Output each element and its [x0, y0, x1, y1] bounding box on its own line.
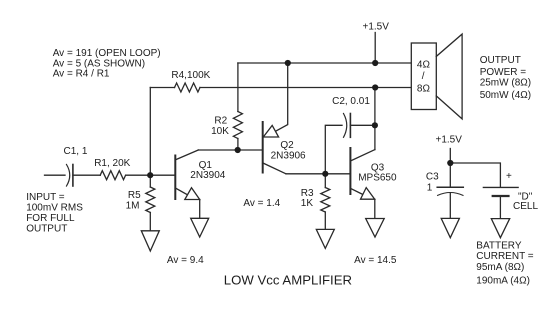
svg-text:MPS650: MPS650: [358, 173, 397, 184]
wire R1 to Q1 base: [126, 174, 176, 176]
wire output net y=87.5 from R4 to speaker: [150, 87, 174, 89]
note input level: [26, 192, 83, 234]
note output power: [480, 55, 531, 101]
svg-text:190mA (4Ω): 190mA (4Ω): [476, 275, 530, 286]
svg-text:CELL: CELL: [513, 201, 538, 212]
svg-text:+: +: [506, 171, 512, 182]
node input junction dot: [147, 172, 153, 178]
svg-text:OUTPUT: OUTPUT: [26, 224, 67, 235]
svg-text:Av = 1.4: Av = 1.4: [243, 198, 280, 209]
wire R2 bottom leg: [237, 139, 239, 151]
svg-text:R2: R2: [214, 115, 227, 126]
svg-text:2N3904: 2N3904: [190, 170, 225, 181]
svg-text:LOW Vcc AMPLIFIER: LOW Vcc AMPLIFIER: [224, 273, 352, 288]
wire input left lead: [45, 174, 66, 176]
svg-text:1K: 1K: [301, 198, 314, 209]
battery D cell: [483, 187, 518, 218]
resistor R1 20K: [100, 171, 125, 180]
node battery rail dot: [447, 160, 453, 166]
svg-text:C2, 0.01: C2, 0.01: [332, 96, 370, 107]
wire input vertical R4 left leg: [149, 88, 151, 176]
svg-text:+1.5V: +1.5V: [436, 134, 463, 145]
svg-text:4Ω: 4Ω: [417, 60, 431, 71]
ground below Q3: [366, 219, 385, 238]
ground below battery: [491, 219, 509, 238]
svg-text:C1, 1: C1, 1: [64, 146, 88, 157]
wire C2 left branch: [325, 125, 342, 174]
svg-text:POWER =: POWER =: [480, 67, 527, 78]
svg-text:1: 1: [427, 183, 433, 194]
resistor R2 10K: [233, 112, 242, 139]
svg-text:Av = 9.4: Av = 9.4: [167, 255, 204, 266]
svg-text:100mV RMS: 100mV RMS: [26, 202, 83, 213]
resistor R5 1M: [146, 175, 155, 231]
transistor Q3 MPS650: [350, 148, 375, 219]
svg-text:95mA (8Ω): 95mA (8Ω): [476, 262, 524, 273]
svg-text:Av = R4 / R1: Av = R4 / R1: [53, 69, 110, 80]
transistor Q1 2N3904: [175, 150, 199, 218]
svg-text:25mW (8Ω): 25mW (8Ω): [480, 78, 531, 89]
svg-text:2N3906: 2N3906: [271, 150, 306, 161]
wire Q3 collector vertical: [374, 88, 376, 150]
svg-text:OUTPUT: OUTPUT: [480, 55, 521, 66]
note battery current: [476, 240, 533, 286]
resistor R4 100K: [175, 83, 201, 92]
wire battery branch: [450, 163, 500, 187]
wire R4 right to speaker: [200, 87, 411, 89]
node output rail dot: [372, 84, 378, 90]
svg-text:8Ω: 8Ω: [417, 84, 431, 95]
capacitor C2: [344, 114, 351, 138]
wire Q1 collector to Q2 base: [198, 149, 262, 151]
ground below R5: [141, 231, 159, 251]
ground below Q1: [191, 218, 209, 237]
svg-text:C3: C3: [426, 171, 439, 182]
svg-text:1M: 1M: [126, 201, 140, 212]
wire Q2 collector to Q3 base: [286, 173, 351, 175]
svg-text:BATTERY: BATTERY: [476, 240, 522, 251]
wire C1 to R1: [73, 174, 100, 176]
wire C2 right lead: [350, 124, 375, 126]
node Q2 emitter rail dot: [285, 60, 291, 66]
svg-text:Av = 14.5: Av = 14.5: [354, 255, 397, 266]
wire R2 top leg: [237, 63, 239, 112]
ground below R3: [316, 229, 334, 248]
svg-text:/: /: [422, 71, 425, 82]
svg-text:10K: 10K: [211, 126, 229, 137]
capacitor C3: [437, 187, 463, 218]
svg-text:R1, 20K: R1, 20K: [94, 158, 130, 169]
svg-text:CURRENT =: CURRENT =: [476, 251, 533, 262]
capacitor C1: [67, 165, 73, 187]
node +1.5V rail dot: [372, 60, 378, 66]
wire top supply rail y=63: [238, 62, 411, 64]
svg-text:R4,100K: R4,100K: [171, 70, 210, 81]
transistor Q2 2N3906: [263, 63, 288, 174]
svg-text:50mW (4Ω): 50mW (4Ω): [480, 90, 531, 101]
speaker 4/8 ohm: [411, 34, 462, 119]
svg-text:+1.5V: +1.5V: [363, 21, 390, 32]
node C2 right dot: [372, 122, 378, 128]
node R2/Q2 base junction dot: [235, 147, 241, 153]
battery supply +1.5V lead: [449, 149, 451, 188]
svg-text:FOR FULL: FOR FULL: [26, 213, 75, 224]
wire +1.5V lead top: [374, 33, 376, 64]
svg-text:R5: R5: [128, 190, 141, 201]
node R3/Q3 base dot: [322, 171, 328, 177]
ground below C3: [441, 218, 459, 237]
resistor R3 1K: [321, 174, 330, 230]
